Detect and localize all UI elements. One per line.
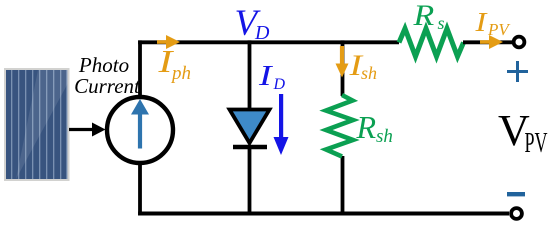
current arrow I_sh bbox=[336, 46, 349, 78]
label I_D bbox=[258, 61, 286, 93]
wire diode branch upper bbox=[248, 40, 252, 112]
svg-text:PV: PV bbox=[487, 20, 511, 39]
wire top horizontal bbox=[138, 40, 399, 44]
svg-text:D: D bbox=[254, 22, 270, 44]
svg-text:Current: Current bbox=[74, 74, 141, 98]
svg-text:ph: ph bbox=[170, 63, 191, 84]
minus sign bbox=[507, 192, 525, 196]
current arrow I_ph on top wire bbox=[157, 35, 180, 49]
node V_D label bbox=[235, 3, 271, 44]
current source arrow (photo current) bbox=[131, 99, 149, 149]
resistor R_s zigzag bbox=[399, 29, 464, 57]
diode D1 bbox=[230, 110, 270, 148]
terminal negative bbox=[511, 208, 522, 219]
svg-text:R: R bbox=[356, 109, 377, 145]
plus sign bbox=[507, 61, 528, 82]
svg-text:PV: PV bbox=[525, 128, 548, 159]
label I_ph bbox=[157, 44, 191, 84]
label I_sh bbox=[348, 49, 377, 83]
wire shunt branch upper bbox=[341, 40, 345, 96]
current arrow I_PV bbox=[480, 35, 503, 49]
black arrow from panel to current source bbox=[69, 123, 106, 137]
svg-text:D: D bbox=[273, 76, 286, 93]
wire R_s to terminal bbox=[463, 40, 512, 44]
solar panel PV module bbox=[4, 68, 70, 181]
current arrow I_D bbox=[274, 94, 289, 155]
label I_PV bbox=[474, 7, 511, 39]
wire current source to bottom bbox=[138, 162, 142, 216]
svg-text:s: s bbox=[438, 13, 445, 33]
label Photo Current bbox=[74, 53, 141, 98]
wire top-left vertical (node to current source) bbox=[138, 40, 142, 98]
current source U1 circle bbox=[107, 97, 173, 163]
terminal positive bbox=[514, 37, 525, 48]
resistor R_sh zigzag bbox=[326, 95, 353, 157]
label R_s bbox=[412, 0, 444, 33]
label R_sh bbox=[356, 109, 393, 147]
wire diode branch lower bbox=[248, 147, 252, 216]
svg-text:sh: sh bbox=[361, 63, 377, 83]
label V_PV bbox=[498, 106, 548, 159]
svg-text:R: R bbox=[412, 0, 434, 31]
svg-text:sh: sh bbox=[376, 126, 393, 147]
wire shunt branch lower bbox=[341, 156, 345, 216]
wire bottom horizontal bbox=[138, 212, 509, 216]
svg-text:I: I bbox=[258, 61, 274, 92]
svg-text:I: I bbox=[474, 7, 488, 37]
